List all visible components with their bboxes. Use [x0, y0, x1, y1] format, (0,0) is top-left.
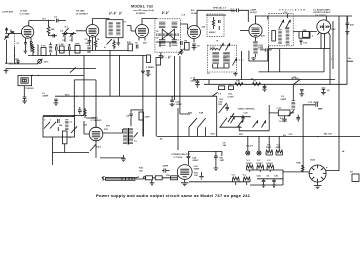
- svg-text:20MF: 20MF: [194, 169, 200, 171]
- svg-text:V-2: V-2: [257, 160, 261, 162]
- resistor R4 under T1: [113, 40, 115, 50]
- capacitor C16: [300, 40, 303, 45]
- svg-text:220K: 220K: [75, 44, 81, 46]
- svg-text:C9: C9: [156, 38, 160, 40]
- tube V4 grids: [190, 30, 198, 37]
- svg-text:2.2MEG: 2.2MEG: [146, 67, 154, 69]
- T1 primary coil: [109, 22, 113, 36]
- svg-text:TR 1855: TR 1855: [76, 11, 85, 13]
- svg-text:1: 1: [50, 120, 52, 122]
- T2 bottom ground: [159, 52, 163, 58]
- svg-text:.05: .05: [126, 116, 130, 118]
- svg-text:V-1 CONV: V-1 CONV: [20, 14, 31, 16]
- junction dot osc bus: [324, 48, 325, 49]
- resistor R10 box: [156, 58, 161, 66]
- wire trimmer bus: [62, 34, 76, 42]
- ground under R31: [150, 180, 155, 186]
- svg-text:C7: C7: [124, 22, 128, 24]
- T1 slug arrow: [107, 39, 112, 44]
- svg-text:C-14: C-14: [191, 77, 197, 80]
- svg-text:.05: .05: [68, 45, 72, 47]
- wire phono down: [23, 86, 25, 97]
- tube V1 grids: [24, 30, 32, 37]
- wire osc bottom bus: [269, 48, 330, 50]
- resistor R12 box: [185, 43, 190, 51]
- B+ bus long: [204, 83, 347, 85]
- svg-text:B-5: B-5: [191, 10, 195, 12]
- sw arrow 3: [71, 126, 77, 133]
- junction dot tone: [249, 116, 250, 117]
- heater resistor row3 b: [244, 177, 251, 182]
- phono crystal symbol: [22, 79, 26, 82]
- svg-text:POWER PEN OUT: POWER PEN OUT: [172, 154, 191, 156]
- pin circle: [143, 177, 145, 179]
- resistor R3 box: [41, 48, 46, 56]
- svg-text:C28: C28: [218, 102, 223, 104]
- junction dot V6 bottom: [329, 84, 330, 85]
- svg-text:C8: C8: [156, 31, 160, 33]
- coil L6: [49, 45, 52, 54]
- tone cap C29: [241, 115, 244, 122]
- ground left: [4, 69, 9, 74]
- wire V7 plate to transformer: [103, 129, 123, 133]
- antenna rod tip: [135, 177, 143, 179]
- T2 slug arrow: [178, 49, 184, 55]
- svg-text:C42: C42: [257, 175, 262, 178]
- small box right edge: [352, 174, 359, 182]
- route above V8: [188, 151, 222, 164]
- box cap 1: [58, 119, 60, 131]
- svg-text:TP: TP: [350, 172, 353, 174]
- components between V2 V3: [128, 44, 132, 51]
- svg-text:10K: 10K: [236, 81, 240, 83]
- junction dots bus: [229, 84, 230, 85]
- wire V1 pins down: [25, 36, 31, 39]
- wire V6 cathode down: [323, 34, 325, 49]
- svg-text:12-1/2 BATT: 12-1/2 BATT: [76, 13, 89, 16]
- wire V2 plate up right: [93, 19, 110, 25]
- svg-text:AVC: AVC: [44, 61, 49, 64]
- capacitor C5 inside B5: [219, 20, 221, 30]
- svg-text:22K: 22K: [303, 30, 307, 32]
- tube V8 envelope: [177, 165, 192, 180]
- vertical x303: [303, 105, 311, 171]
- tick right edge: [347, 60, 353, 62]
- capacitor C42a gnd: [261, 179, 265, 188]
- wire R1 bottom: [49, 35, 58, 37]
- capacitor on band bus: [16, 59, 19, 64]
- svg-text:12SQ7: 12SQ7: [266, 163, 274, 165]
- svg-text:C16: C16: [303, 43, 308, 45]
- vertical under T1: [109, 50, 111, 96]
- heater resistor 1: [266, 150, 273, 155]
- resistor box right of tone: [278, 110, 290, 116]
- svg-text:R26: R26: [188, 113, 193, 115]
- tone sw arrow 1: [189, 118, 197, 127]
- T2 coil top secondary: [172, 22, 178, 29]
- svg-text:250: 250: [231, 11, 235, 13]
- trimmer capacitor C1A: [4, 34, 9, 40]
- wire V5 plate top: [255, 16, 257, 24]
- svg-text:1.5K: 1.5K: [59, 44, 64, 46]
- svg-text:AVC: AVC: [65, 94, 70, 97]
- tube V7 grids: [92, 131, 100, 138]
- capacitor on bus: [262, 84, 266, 91]
- svg-text:150: 150: [166, 175, 170, 177]
- svg-text:B+: B+: [160, 139, 164, 141]
- cap C25 gnd: [170, 100, 175, 107]
- svg-text:IF 455KC: IF 455KC: [136, 12, 146, 15]
- resistor under V8: [171, 176, 178, 180]
- tone deck arrow 2: [228, 113, 234, 122]
- components above V7 cap: [78, 107, 82, 114]
- svg-text:12 SA7: 12 SA7: [20, 10, 28, 13]
- ground under V5 coil: [251, 57, 256, 61]
- svg-text:C8: C8: [223, 142, 227, 144]
- resistor R7 box: [60, 46, 65, 53]
- capacitor C7: [56, 44, 58, 56]
- wire sw verticals: [189, 127, 206, 136]
- svg-text:+B: +B: [342, 151, 345, 153]
- wire socket from bus: [326, 137, 340, 171]
- svg-text:L5: L5: [207, 73, 210, 75]
- capacitor C8: [69, 44, 71, 56]
- capacitor near V7: [129, 110, 132, 118]
- wire under V1 to bus: [24, 48, 31, 54]
- svg-text:C: C: [44, 120, 46, 122]
- svg-text:1K: 1K: [97, 39, 100, 41]
- socket heater zigzag: [302, 165, 305, 172]
- svg-text:C-8: C-8: [182, 15, 186, 17]
- svg-text:V-1: V-1: [247, 160, 251, 162]
- svg-text:250: 250: [143, 43, 147, 45]
- pilot lamp 1 cross: [246, 152, 249, 155]
- svg-text:DETECTOR AVC: DETECTOR AVC: [314, 11, 331, 14]
- wire socket link: [283, 171, 310, 173]
- svg-text:CONT: CONT: [228, 96, 235, 98]
- resistor RZ2 on bus: [253, 83, 261, 86]
- T2 coil bottom primary: [159, 39, 165, 46]
- svg-text:12 SQ7: 12 SQ7: [250, 12, 258, 14]
- pilot lamp 2: [257, 151, 261, 155]
- heater resistor 2: [276, 150, 283, 155]
- sw arrow 1: [44, 122, 50, 129]
- svg-text:A: A: [104, 46, 106, 49]
- vertical right 1: [338, 16, 340, 137]
- wire under V6: [299, 32, 310, 39]
- svg-text:S1B: S1B: [199, 113, 204, 115]
- component row resistor R6: [32, 44, 38, 55]
- loop route left: [73, 80, 75, 117]
- wire box bottom: [52, 137, 89, 165]
- heater stems row1: [269, 137, 279, 151]
- capacitor C6 gnd: [22, 97, 27, 104]
- capacitor C17 gnd: [299, 90, 304, 97]
- svg-text:VOL: VOL: [228, 94, 233, 96]
- svg-text:C6: C6: [281, 96, 285, 98]
- series capacitor C24: [260, 48, 272, 51]
- tube V5 grids: [252, 28, 260, 35]
- interstage transformer primary: [123, 128, 127, 145]
- svg-text:TONE CONTROL: TONE CONTROL: [238, 108, 256, 110]
- wire V7 cathode down: [95, 141, 97, 158]
- wire to resistor box: [269, 112, 294, 114]
- svg-text:P: P: [326, 168, 328, 170]
- padder trimmer arrow: [219, 44, 236, 66]
- coil L3 small: [87, 46, 90, 54]
- svg-text:TAL 150: TAL 150: [324, 133, 333, 136]
- vertical x142.9: [142, 56, 144, 137]
- svg-text:12SK7: 12SK7: [256, 163, 263, 165]
- resistor R8 box: [75, 46, 80, 54]
- junction dots bottom: [282, 178, 283, 179]
- heater bus row2: [247, 170, 284, 185]
- coil L4 right: [291, 101, 295, 111]
- antenna rod center line: [106, 177, 136, 180]
- wire V4 bottom: [193, 39, 195, 43]
- trimmer pair under V2: [63, 32, 74, 37]
- wire V6 top: [325, 16, 327, 20]
- svg-text:.02MF: .02MF: [176, 104, 183, 106]
- junction dot x178: [177, 136, 178, 137]
- tube V3 envelope: [136, 25, 149, 38]
- junction dots switch bus: [54, 115, 55, 116]
- pot circle: [38, 59, 42, 63]
- svg-text:.05: .05: [266, 176, 270, 178]
- svg-text:.05: .05: [327, 90, 331, 92]
- tube V1 envelope: [21, 26, 33, 38]
- capacitor C9 gnd: [54, 99, 59, 105]
- resistor R11 box: [303, 32, 310, 38]
- wire V2 pins down: [89, 37, 95, 51]
- socket pin dots: [313, 169, 314, 170]
- svg-text:PILOT: PILOT: [247, 146, 254, 148]
- svg-text:SPECIAL 1.7: SPECIAL 1.7: [213, 6, 227, 9]
- svg-text:Power supply and audio output: Power supply and audio output circuit sa…: [96, 193, 251, 198]
- box resistor vertical: [63, 131, 68, 144]
- tube V2 envelope: [86, 25, 99, 38]
- svg-text:𝑉: 𝑉: [119, 12, 123, 16]
- ground under resistor box: [282, 116, 287, 122]
- B+ bus 2: [209, 80, 335, 85]
- IF transformer T2 can dashed: [155, 19, 181, 52]
- route rect 1: [242, 51, 268, 80]
- tube V7 envelope: [89, 127, 103, 141]
- tone sw arrow 2: [198, 118, 206, 127]
- resistor R9 box: [147, 55, 151, 63]
- T1 secondary coil: [116, 22, 120, 36]
- resistor R2: [30, 42, 32, 48]
- wire T1 bottom: [117, 38, 121, 45]
- tube V6 heater marks: [320, 23, 329, 31]
- heater resistor row2 b: [257, 165, 264, 170]
- wire bus small: [206, 14, 226, 16]
- switch box left: [43, 117, 75, 137]
- svg-text:C1: C1: [17, 43, 21, 45]
- svg-text:2: 2: [312, 36, 314, 38]
- vertical x119.6: [119, 56, 121, 97]
- svg-text:PHONO: PHONO: [26, 88, 34, 90]
- capacitor C38 series: [187, 156, 191, 157]
- junction dots bus y137: [317, 136, 318, 137]
- svg-text:C2: C2: [54, 17, 58, 19]
- svg-text:455KC: 455KC: [209, 31, 216, 34]
- junction dot avc: [76, 96, 77, 97]
- svg-text:C-24: C-24: [258, 46, 264, 49]
- top of cap-res pair: [131, 109, 144, 111]
- loop route right: [95, 80, 97, 128]
- T2 cross connectors: [162, 29, 174, 40]
- capacitor C42b gnd: [272, 179, 276, 188]
- svg-text:47K: 47K: [261, 35, 265, 38]
- vertical x156: [155, 65, 157, 137]
- pot arrow: [37, 59, 42, 64]
- vertical from bus x84: [74, 56, 84, 116]
- route rect 2: [259, 46, 325, 72]
- resistor RZ1 on bus: [235, 83, 243, 86]
- svg-text:R31: R31: [194, 173, 199, 175]
- svg-text:HTR: HTR: [296, 163, 301, 165]
- vol control box2: [229, 86, 234, 90]
- svg-text:150: 150: [139, 171, 143, 173]
- oscillator dashed box: [269, 14, 294, 46]
- wire V7 top: [86, 118, 96, 127]
- svg-text:.05MF: .05MF: [162, 166, 169, 168]
- svg-text:.05MF: .05MF: [190, 81, 197, 83]
- wire bus under V2: [58, 49, 128, 51]
- svg-text:22K: 22K: [51, 29, 55, 31]
- svg-text:𝑉–𝑉: 𝑉–𝑉: [162, 11, 170, 15]
- T2 coil bottom secondary: [172, 39, 178, 46]
- svg-text:35Z5: 35Z5: [276, 147, 282, 149]
- heater resistor row2 c: [267, 165, 274, 170]
- vol cap: [225, 104, 229, 111]
- wire R boxes: [153, 177, 178, 179]
- T2 coil top primary: [159, 22, 165, 29]
- junction arrow bottom: [288, 110, 294, 116]
- resistor R1: [47, 21, 50, 36]
- svg-text:R27: R27: [239, 134, 244, 136]
- tube V4 envelope: [188, 26, 201, 39]
- wire bus mid left: [28, 55, 146, 57]
- antenna rod clip: [102, 176, 104, 180]
- stems heater row3: [236, 182, 247, 185]
- svg-text:V-5: V-5: [243, 174, 247, 176]
- svg-text:R30: R30: [139, 168, 144, 170]
- switch S1: [62, 21, 69, 34]
- capacitor C18 gnd: [321, 88, 326, 95]
- svg-text:MODEL 732: MODEL 732: [131, 5, 153, 9]
- junction dots mid: [119, 55, 120, 56]
- osc trimmer arrow 1: [279, 20, 284, 29]
- wire osc box top right: [288, 14, 294, 18]
- svg-text:V-6: V-6: [232, 174, 236, 176]
- svg-text:T3: T3: [134, 141, 137, 143]
- wire V3 plate to T2: [142, 19, 157, 25]
- svg-text:150: 150: [194, 175, 198, 177]
- resistor box near V7: [139, 112, 144, 120]
- wire bus left low: [9, 63, 38, 65]
- svg-text:S1A: S1A: [211, 133, 216, 136]
- resistor R5 inside B5: [212, 17, 214, 29]
- wire V7 grid left: [84, 121, 89, 134]
- svg-text:IF: IF: [217, 41, 220, 43]
- vertical x178: [177, 108, 179, 150]
- wire under V7 gnd: [100, 155, 126, 161]
- vertical right 3: [332, 21, 334, 69]
- svg-text:R21: R21: [104, 129, 109, 131]
- svg-text:.1MF: .1MF: [219, 160, 225, 162]
- ground right top: [345, 32, 349, 35]
- svg-text:1st AUDIO AMPL: 1st AUDIO AMPL: [313, 9, 331, 12]
- svg-text:uses RF stage (2nd): uses RF stage (2nd): [133, 9, 154, 12]
- phono jack outer box: [18, 75, 32, 85]
- svg-text:.05MF: .05MF: [280, 99, 287, 101]
- svg-text:C29: C29: [244, 113, 249, 115]
- wire antenna to V1: [5, 32, 21, 34]
- wire V2 grid left: [76, 30, 86, 32]
- wire C25 up: [171, 96, 173, 100]
- resistor under V2 right: [94, 41, 96, 51]
- wire osc to V6: [293, 31, 317, 33]
- ground mid: [141, 71, 145, 74]
- wire top bus left: [29, 20, 55, 22]
- osc coil 2: [286, 27, 290, 45]
- svg-text:1.0: 1.0: [218, 94, 222, 96]
- vol pot arrow: [212, 92, 218, 96]
- svg-text:L7: L7: [70, 121, 73, 123]
- svg-text:B+: B+: [349, 58, 353, 60]
- wire coil L4 top: [292, 85, 294, 101]
- pilot lamp 2 cross: [258, 152, 261, 155]
- capacitor C36: [162, 169, 170, 173]
- vertical x216.7: [216, 96, 218, 137]
- svg-text:1K: 1K: [253, 81, 256, 83]
- loop route top: [74, 79, 96, 81]
- vertical x174: [174, 56, 176, 100]
- tone wire: [219, 126, 241, 128]
- top right bus: [256, 16, 353, 20]
- switch S2 on AVC bus: [70, 67, 76, 72]
- junction dots heater: [269, 136, 270, 137]
- heater resistor row2 a: [247, 165, 254, 170]
- dashed box B5: [207, 14, 224, 36]
- svg-text:V-8: V-8: [277, 144, 281, 146]
- svg-text:𝑉–𝑉: 𝑉–𝑉: [109, 12, 117, 16]
- resistor R30 box: [155, 176, 162, 180]
- svg-text:1.0 MEG: 1.0 MEG: [279, 121, 288, 123]
- vertical x180: [180, 56, 190, 114]
- svg-text:C22: C22: [83, 125, 88, 127]
- svg-text:I-AMP: I-AMP: [250, 9, 257, 12]
- svg-text:O S C I L L A T O R: O S C I L L A T O R: [279, 9, 305, 12]
- wire resistor down: [131, 110, 144, 137]
- capacitor C19: [296, 115, 300, 122]
- svg-text:C-31: C-31: [277, 108, 283, 110]
- ground mid bus: [233, 72, 237, 76]
- svg-text:C31: C31: [289, 134, 294, 136]
- svg-text:C12 .05MF: C12 .05MF: [308, 102, 319, 104]
- osc trimmer arrow 2: [285, 20, 290, 29]
- capacitor C11 gnd: [192, 44, 197, 50]
- svg-text:250: 250: [202, 27, 206, 29]
- svg-text:1M: 1M: [184, 41, 187, 43]
- osc resistor box: [272, 31, 276, 42]
- svg-text:.05: .05: [197, 46, 201, 48]
- tube V5 envelope: [249, 24, 262, 37]
- switch on bus right: [293, 79, 300, 84]
- socket spokes: [309, 165, 326, 182]
